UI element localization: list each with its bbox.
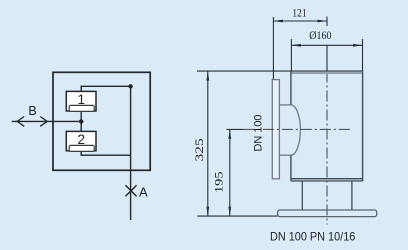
svg-text:DN 100: DN 100 bbox=[253, 115, 265, 152]
svg-text:A: A bbox=[139, 184, 148, 199]
svg-text:DN 100 PN 10/16: DN 100 PN 10/16 bbox=[270, 230, 356, 244]
svg-text:121: 121 bbox=[292, 6, 307, 20]
svg-text:195: 195 bbox=[211, 172, 225, 194]
svg-text:2: 2 bbox=[77, 132, 85, 147]
svg-text:B: B bbox=[28, 104, 36, 118]
svg-text:1: 1 bbox=[77, 92, 85, 107]
svg-text:325: 325 bbox=[192, 138, 206, 161]
svg-text:Ø160: Ø160 bbox=[309, 28, 331, 42]
